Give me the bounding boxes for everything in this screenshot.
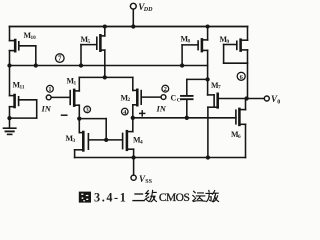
label M11 xyxy=(13,81,25,91)
glyph fang (amp) xyxy=(206,190,219,201)
svg-text:SS: SS xyxy=(145,179,152,185)
label M8 xyxy=(181,35,191,45)
svg-text:3: 3 xyxy=(73,138,76,144)
wire: node 4 line to M6 gate xyxy=(131,116,236,120)
node 2 xyxy=(162,85,169,93)
transistor M8 xyxy=(182,24,210,81)
svg-text:CMOS: CMOS xyxy=(159,192,190,204)
svg-text:3.4-1: 3.4-1 xyxy=(94,190,127,204)
transistor M1 xyxy=(51,77,79,118)
svg-text:3: 3 xyxy=(86,107,89,114)
svg-text:6: 6 xyxy=(238,134,241,140)
terminal IN+ xyxy=(161,95,166,100)
wire: VSS rail xyxy=(75,155,246,159)
wire: output line xyxy=(218,96,265,100)
label IN plus xyxy=(156,104,167,114)
terminal IN- xyxy=(46,95,51,100)
node 3 junction xyxy=(77,116,106,139)
wire: mirror gate line xyxy=(88,138,122,142)
svg-text:11: 11 xyxy=(20,84,25,90)
wire: bias rail node 7 xyxy=(7,63,207,67)
glyph er (two) xyxy=(133,194,144,201)
capacitor Cc xyxy=(181,79,208,120)
label Cc xyxy=(171,93,181,103)
label M3 xyxy=(66,134,76,144)
transistor M7 xyxy=(208,79,218,157)
svg-text:1: 1 xyxy=(48,86,51,93)
VDD terminal xyxy=(130,3,136,28)
node 6 xyxy=(237,72,245,81)
label M10 xyxy=(24,31,37,41)
node 1 xyxy=(47,85,54,93)
svg-text:IN: IN xyxy=(156,104,167,114)
node 4 xyxy=(122,108,129,116)
label M9 xyxy=(220,35,230,45)
label M1 xyxy=(67,77,77,87)
label M2 xyxy=(121,93,131,103)
svg-text:5: 5 xyxy=(88,39,91,45)
transistor M9 xyxy=(224,27,248,99)
svg-text:7: 7 xyxy=(218,85,221,91)
transistor M3 xyxy=(75,119,89,158)
label IN minus xyxy=(41,104,52,114)
svg-text:4: 4 xyxy=(140,139,143,145)
label M7 xyxy=(211,81,221,91)
svg-text:IN: IN xyxy=(41,104,52,114)
minus sign xyxy=(62,114,67,116)
transistor M10 xyxy=(10,27,36,66)
terminal Vo xyxy=(264,96,269,101)
svg-text:4: 4 xyxy=(123,109,126,116)
caption: figure 3.4-1 two-stage CMOS op-amp xyxy=(79,192,91,203)
transistor M6 xyxy=(236,99,246,158)
svg-text:7: 7 xyxy=(58,55,62,63)
label VSS xyxy=(139,174,153,185)
wire: VDD rail xyxy=(10,26,248,28)
wire: diff pair source coupling xyxy=(79,75,133,79)
svg-text:0: 0 xyxy=(277,99,280,105)
label M6 xyxy=(231,130,241,140)
transistor M5 xyxy=(81,24,107,77)
svg-text:9: 9 xyxy=(227,39,230,45)
caption CMOS xyxy=(159,192,190,204)
svg-text:DD: DD xyxy=(143,7,153,13)
plus sign xyxy=(140,111,145,116)
svg-text:2: 2 xyxy=(164,86,167,93)
svg-text:2: 2 xyxy=(128,97,131,103)
transistor M11 xyxy=(7,66,36,121)
transistor M4 xyxy=(123,118,134,158)
node 3 xyxy=(84,106,91,114)
glyph yun (op) xyxy=(193,191,205,201)
label M5 xyxy=(81,35,91,45)
svg-text:C: C xyxy=(171,93,177,102)
terminal VSS xyxy=(131,158,136,181)
svg-text:C: C xyxy=(177,97,181,103)
transistor M2 xyxy=(133,77,161,117)
ground xyxy=(4,118,16,134)
svg-text:8: 8 xyxy=(188,38,191,44)
label Vo xyxy=(271,94,280,105)
glyph ji (stage) xyxy=(145,190,156,201)
label M4 xyxy=(133,136,143,146)
caption number 3.4-1 xyxy=(94,190,127,204)
svg-text:10: 10 xyxy=(31,35,37,41)
label VDD xyxy=(138,2,153,13)
node 7 xyxy=(56,54,65,63)
svg-text:1: 1 xyxy=(74,80,77,86)
